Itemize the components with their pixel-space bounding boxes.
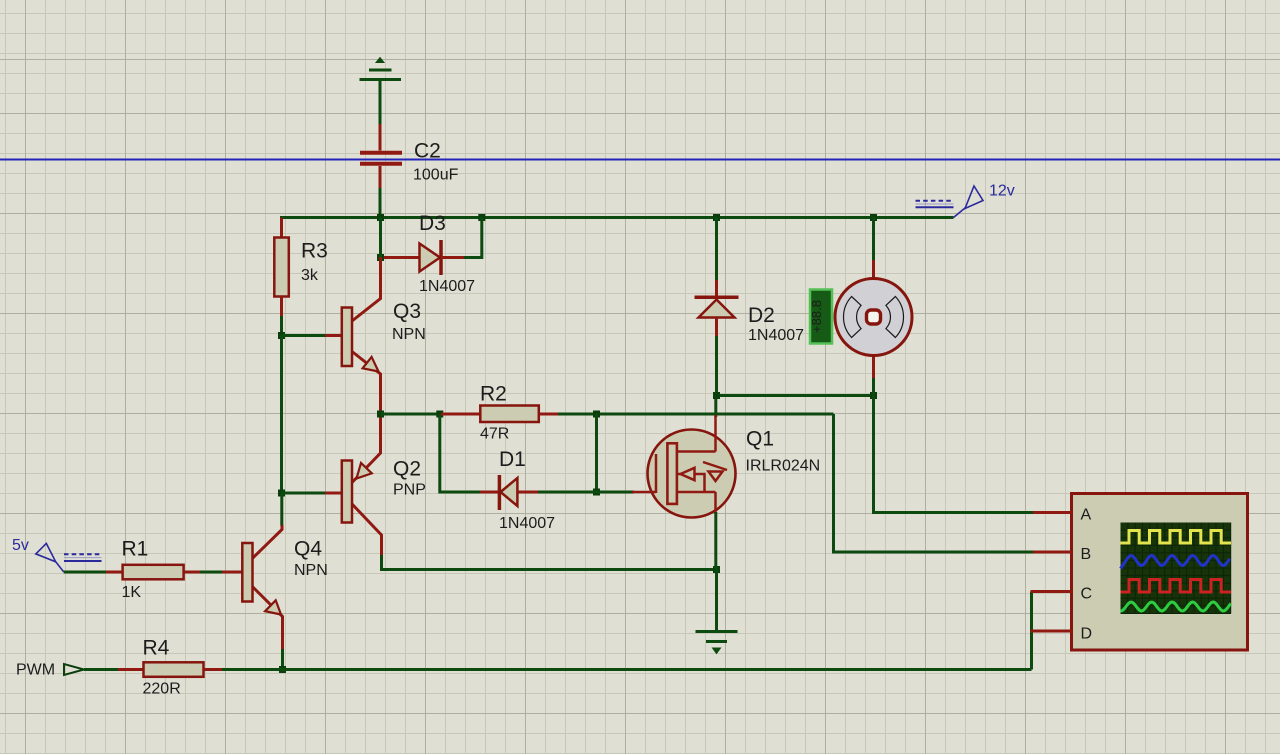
transistor Q2 [322,413,382,557]
wire: motor bottom to oscilloscope A [874,378,1035,513]
junction D2 anode [713,392,720,399]
svg-text:R3: R3 [301,240,328,263]
svg-text:C: C [1081,586,1093,603]
wire: D2 rail to Q1 drain [714,396,717,418]
capacitor C2 [360,124,402,190]
wire: 12V bus [280,216,954,219]
wire: C2 to 12V bus [379,188,382,218]
wire: R1 to Q4 base [200,571,224,574]
svg-text:C2: C2 [414,140,441,163]
svg-text:A: A [1081,507,1092,524]
trace D (green) [1121,602,1231,611]
wire: gate node vertical [595,414,598,492]
wire: Q2 collector to ground rail [382,555,717,570]
junction on 12V bus x=873.5 [870,214,877,221]
svg-text:R1: R1 [122,538,149,561]
MOSFET Q1 [632,415,736,518]
motor [835,256,912,380]
svg-text:3k: 3k [301,267,319,284]
wire: Q2 base from node [282,492,326,495]
svg-text:Q3: Q3 [393,300,421,323]
wire: emitter node to R2 [381,413,443,416]
junction on 12V bus x=481.8 [478,214,485,221]
junction gate node top [593,411,600,418]
svg-text:D2: D2 [748,304,775,327]
trace B (blue) [1121,556,1230,569]
wire: top ground to C2 [379,80,382,127]
svg-text:NPN: NPN [294,562,328,579]
power terminal 12v [916,186,984,218]
junction gate node bottom [593,489,600,496]
wire: PWM rail [222,668,1032,671]
wire: to oscilloscope B [834,414,1035,552]
svg-text:D: D [1081,626,1093,643]
wire: R3 to node [280,316,283,336]
wire: R2 right to gate node [558,413,834,416]
transistor Q4 [222,525,283,651]
wire: ground rail down [715,570,718,632]
svg-text:PNP: PNP [393,482,426,499]
svg-text:5v: 5v [12,537,29,554]
svg-text:Q1: Q1 [746,428,774,451]
junction R3/Q3 base [278,332,285,339]
svg-text:NPN: NPN [392,326,426,343]
ground (top) [360,58,402,80]
svg-text:12v: 12v [989,183,1015,200]
wire: 5v to R1 [64,571,108,574]
svg-text:Q4: Q4 [294,538,322,561]
wire: D1 anode to gate node [538,491,597,494]
oscilloscope screen [1121,523,1232,614]
diode D3 [381,240,467,275]
svg-text:47R: 47R [480,426,509,443]
ground (bottom) [696,632,738,654]
wire: node column x281.5 [280,336,283,494]
svg-text:100uF: 100uF [413,167,459,184]
wire: bus to D2 cathode [715,218,718,281]
svg-text:1K: 1K [122,584,142,601]
svg-text:220R: 220R [143,681,181,698]
transistor Q3 [322,257,381,415]
power terminal 5v [36,543,102,572]
wire: node to Q4 collector [280,493,283,526]
svg-text:D1: D1 [499,448,526,471]
svg-text:B: B [1081,546,1092,563]
sheet border line [0,159,1280,161]
oscilloscope [1031,494,1248,651]
wire: bus to motor top [872,218,875,261]
svg-text:R4: R4 [143,637,170,660]
wire: D3 cathode up to bus [464,218,482,258]
svg-text:IRLR024N: IRLR024N [746,458,821,475]
junction emitters Q2/Q3 [377,411,384,418]
wire: Q4 emitter to PWM rail [281,649,284,670]
wire: D2 anode down [715,336,718,396]
junction on 12V bus x=380.5 [377,214,384,221]
resistor R4 [118,662,224,677]
terminal PWM [64,664,84,675]
junction at ground node [713,566,720,573]
resistor R2 [441,406,560,423]
trace A (yellow) [1121,531,1232,544]
junction R2/D1 branch [436,411,443,418]
svg-text:1N4007: 1N4007 [499,515,555,532]
wire: Q1 source to ground rail [714,512,717,570]
junction Q2 base / Q4 collector [278,490,285,497]
wire: PWM to R4 [84,668,120,671]
svg-text:1N4007: 1N4007 [748,327,804,344]
svg-text:1N4007: 1N4007 [419,278,475,295]
wire: bus down to Q3 collector node [379,218,382,259]
resistor R1 [106,565,202,580]
wire: PWM rail up to oscilloscope C/D [1030,592,1033,670]
svg-text:PWM: PWM [16,662,55,679]
junction motor bottom [870,392,877,399]
resistor R3 [274,218,289,319]
wire: branch down to D1 [440,414,481,492]
wire: D2 anode rail [717,394,874,397]
diode D2 [695,279,739,339]
diode D1 [480,475,540,510]
junction D3 anode [377,254,384,261]
motor display [809,290,832,344]
svg-text:R2: R2 [480,383,507,406]
svg-text:+88.8: +88.8 [809,300,824,333]
trace C (red) [1121,580,1232,593]
wire: gate node to Q1 gate [597,491,635,494]
wire: Q3 base from node [282,334,326,337]
svg-text:Q2: Q2 [393,458,421,481]
junction on 12V bus x=716.5 [713,214,720,221]
junction Q4 emitter / PWM rail [279,666,286,673]
svg-text:D3: D3 [419,212,446,235]
